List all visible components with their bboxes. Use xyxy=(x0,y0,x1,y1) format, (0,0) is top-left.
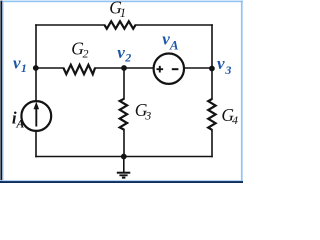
ground bar 3 xyxy=(122,177,126,179)
current source iA circle xyxy=(21,101,51,131)
svg-text:3: 3 xyxy=(224,63,231,77)
node v1 dot xyxy=(33,65,39,71)
frame border left dark xyxy=(0,1,2,183)
svg-text:2: 2 xyxy=(124,51,131,65)
resistor G1 xyxy=(105,21,136,28)
svg-text:1: 1 xyxy=(21,61,27,75)
node v3 dot xyxy=(209,66,215,72)
wire top right segment xyxy=(136,24,213,26)
ground bar 1 xyxy=(117,172,131,174)
resistor G3 xyxy=(120,99,127,130)
svg-text:A: A xyxy=(169,38,179,53)
wire G3 to bottom xyxy=(123,130,125,157)
voltage source minus sign xyxy=(172,68,179,70)
svg-text:4: 4 xyxy=(232,113,238,127)
wire middle vA to v3 xyxy=(185,67,212,69)
wire v2 down to G3 xyxy=(123,68,125,99)
svg-text:2: 2 xyxy=(83,46,89,60)
wire right lower xyxy=(211,130,213,157)
frame border top xyxy=(2,1,243,3)
frame border right xyxy=(241,1,243,182)
wire top left segment xyxy=(36,24,105,26)
current source iA arrow shaft xyxy=(35,108,37,127)
resistor G2 xyxy=(64,65,96,74)
node v2 dot xyxy=(121,65,127,71)
wire middle v1 to G2 xyxy=(36,67,64,69)
wire middle G2 to vA xyxy=(95,67,153,69)
svg-text:v: v xyxy=(117,43,125,62)
frame border left halo xyxy=(2,1,3,181)
voltage source vA circle xyxy=(154,53,184,83)
voltage source plus sign xyxy=(157,66,164,73)
wire left lower xyxy=(35,132,37,157)
current source iA arrow head xyxy=(34,102,40,110)
ground bar 2 xyxy=(119,174,127,176)
frame border bottom halo xyxy=(0,180,243,181)
svg-text:3: 3 xyxy=(144,109,151,123)
frame border bottom dark xyxy=(0,181,243,183)
ground node dot xyxy=(121,154,127,160)
svg-text:v: v xyxy=(13,53,21,72)
wire left upper xyxy=(35,25,37,100)
resistor G4 xyxy=(208,99,215,130)
ground stub xyxy=(123,157,125,172)
svg-text:A: A xyxy=(15,116,24,130)
wire right upper xyxy=(211,25,213,99)
svg-text:1: 1 xyxy=(120,6,126,20)
wire bottom xyxy=(36,156,212,158)
svg-text:v: v xyxy=(217,54,225,73)
